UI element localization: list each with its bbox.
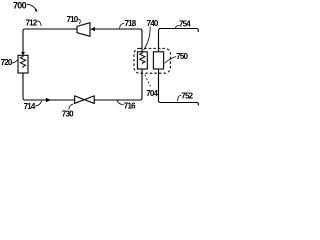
svg-text:730: 730 <box>62 109 74 118</box>
svg-text:704: 704 <box>146 89 158 98</box>
svg-text:754: 754 <box>179 19 191 28</box>
svg-text:752: 752 <box>181 91 193 100</box>
svg-text:718: 718 <box>125 19 137 28</box>
svg-text:712: 712 <box>26 18 38 27</box>
svg-text:720: 720 <box>1 58 13 67</box>
svg-text:700: 700 <box>13 1 27 11</box>
svg-text:716: 716 <box>124 101 136 110</box>
svg-text:714: 714 <box>24 102 36 111</box>
svg-text:750: 750 <box>176 52 188 61</box>
svg-text:710: 710 <box>67 15 79 24</box>
svg-text:740: 740 <box>147 19 159 28</box>
